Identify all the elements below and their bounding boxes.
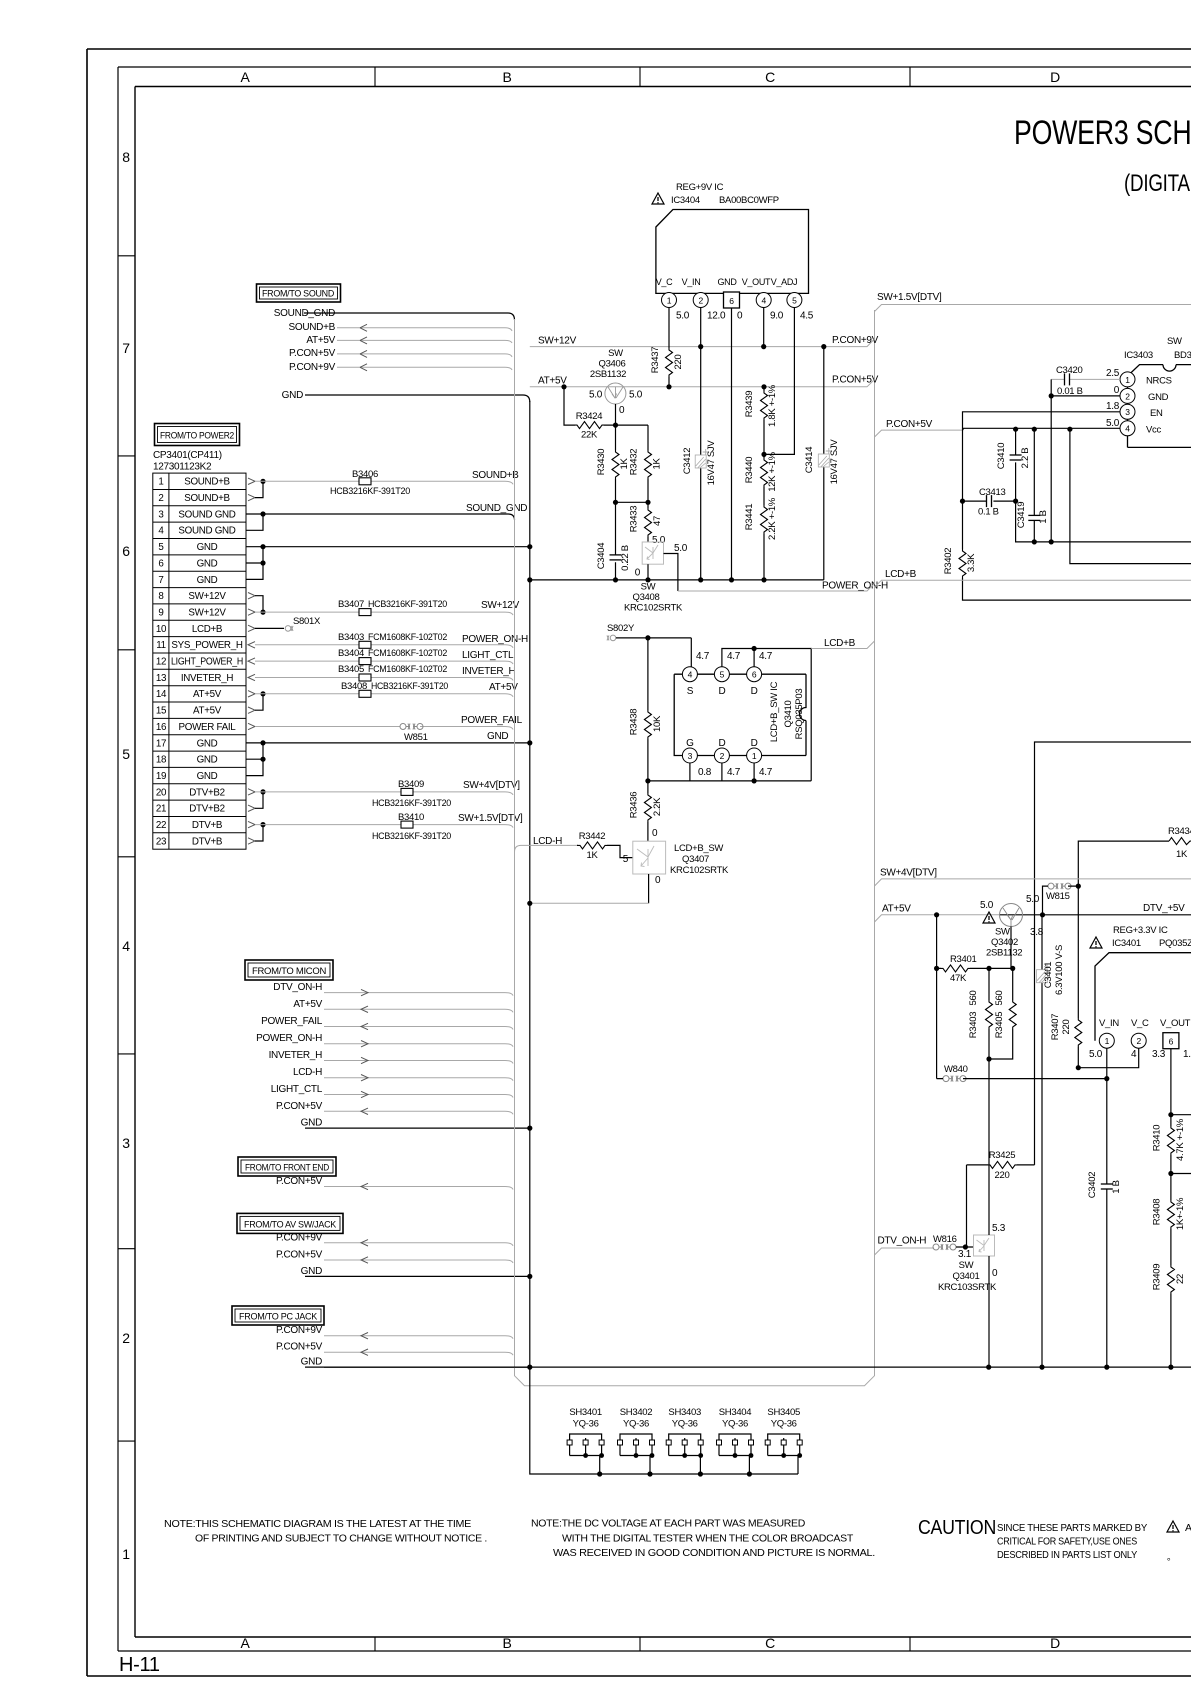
svg-text:DTV_ON-H: DTV_ON-H — [273, 982, 322, 993]
svg-text:4: 4 — [122, 938, 130, 954]
svg-text:0.1 B: 0.1 B — [978, 507, 999, 518]
transistor Q3407 KRC102SRTK LCD+B_SW — [527, 841, 729, 906]
resistor R3438 10K — [629, 638, 664, 781]
rail POWER_ON-H — [678, 581, 888, 592]
wire pin2 V_IN down + capacitor C3412 — [682, 308, 717, 583]
svg-text:LCD+B_SW: LCD+B_SW — [674, 843, 723, 854]
pin 2 Q3410 — [714, 748, 729, 763]
svg-text:20: 20 — [156, 787, 167, 798]
svg-text:C: C — [765, 1635, 775, 1651]
svg-text:D: D — [1050, 1635, 1060, 1651]
shield SH3403 — [666, 1407, 703, 1474]
svg-text:PQ035Z: PQ035Z — [1159, 938, 1191, 949]
svg-text:4.7: 4.7 — [727, 767, 741, 778]
svg-text:B3404: B3404 — [338, 648, 364, 659]
svg-text:V_OUT: V_OUT — [742, 277, 771, 287]
svg-text:GND: GND — [301, 1118, 322, 1129]
svg-text:P.CON+5V: P.CON+5V — [276, 1176, 323, 1187]
svg-text:3.3: 3.3 — [1152, 1049, 1166, 1060]
resistor R3441 2.2K — [744, 497, 778, 582]
svg-text:V_OUT: V_OUT — [1160, 1018, 1191, 1029]
svg-text:4: 4 — [1131, 1049, 1137, 1060]
svg-text:C3419: C3419 — [1016, 502, 1027, 529]
svg-text:YQ-36: YQ-36 — [623, 1419, 649, 1430]
rail AT+5V / DTV_+5V — [875, 903, 1191, 922]
svg-text:6: 6 — [122, 543, 130, 559]
svg-text:R3403: R3403 — [968, 1012, 979, 1039]
svg-text:3: 3 — [688, 751, 693, 761]
svg-text:3.1: 3.1 — [958, 1249, 972, 1260]
wire net from right top corner down (x1034.5) — [1035, 742, 1191, 1165]
svg-text:127301123K2: 127301123K2 — [153, 462, 212, 473]
svg-text:22: 22 — [1175, 1274, 1186, 1284]
svg-text:SW+1.5V[DTV]: SW+1.5V[DTV] — [877, 292, 942, 303]
svg-text:5.3: 5.3 — [992, 1223, 1006, 1234]
svg-text:YQ-36: YQ-36 — [672, 1419, 698, 1430]
svg-text:6: 6 — [1169, 1037, 1174, 1047]
connector S802Y — [607, 623, 710, 667]
IC U IC3404 BA00BC0WFP regulator — [652, 182, 809, 293]
svg-text:1 B: 1 B — [1111, 1180, 1122, 1193]
svg-text:IC3404: IC3404 — [671, 195, 700, 206]
svg-text:SH3403: SH3403 — [668, 1407, 701, 1418]
svg-text:8: 8 — [158, 591, 164, 602]
svg-text:2: 2 — [720, 751, 725, 761]
svg-text:SH3404: SH3404 — [719, 1407, 752, 1418]
svg-text:HCB3216KF-391T20: HCB3216KF-391T20 — [330, 486, 410, 497]
svg-text:LCD+B: LCD+B — [885, 569, 917, 580]
svg-text:SW+12V: SW+12V — [188, 608, 226, 619]
pin 1 Q3410 — [747, 748, 762, 763]
svg-text:WAS RECEIVED IN GOOD CONDITION: WAS RECEIVED IN GOOD CONDITION AND PICTU… — [553, 1547, 875, 1559]
net P.CON+5V (sound block) — [289, 348, 512, 359]
svg-text:D: D — [751, 686, 758, 697]
svg-text:R3439: R3439 — [744, 391, 755, 418]
svg-text:GND: GND — [197, 755, 218, 766]
note printing disclaimer — [164, 1518, 487, 1545]
svg-text:220: 220 — [995, 1170, 1010, 1181]
rail SW+12V / P.CON+9V — [530, 335, 879, 347]
svg-text:V_ADJ: V_ADJ — [771, 277, 798, 287]
svg-text:HCB3216KF-391T20: HCB3216KF-391T20 — [368, 599, 447, 610]
wire GND rows5-7 — [246, 544, 532, 579]
svg-text:GND: GND — [301, 1266, 322, 1277]
svg-text:16V47 SJV: 16V47 SJV — [706, 440, 717, 486]
svg-text:R3434: R3434 — [1168, 826, 1191, 837]
pin 2 IC3403 — [1114, 385, 1135, 403]
svg-text:B3408: B3408 — [341, 681, 367, 692]
svg-text:SOUND+B: SOUND+B — [184, 493, 230, 504]
svg-text:10K: 10K — [652, 715, 663, 732]
connector block FROM/TO POWER2 — [153, 424, 240, 473]
shield SH3401 — [567, 1407, 604, 1474]
pin 3 IC3403 — [1106, 401, 1135, 419]
svg-text:R3424: R3424 — [576, 411, 603, 422]
net LCD-H (FROM/TO MICON) — [293, 1067, 513, 1081]
resistor R3403 560 — [968, 968, 993, 1061]
svg-text:0.22 B: 0.22 B — [620, 545, 631, 571]
svg-text:OF PRINTING AND SUBJECT TO CHA: OF PRINTING AND SUBJECT TO CHANGE WITHOU… — [195, 1533, 487, 1545]
svg-text:Q3401: Q3401 — [952, 1271, 979, 1282]
svg-text:C3402: C3402 — [1087, 1172, 1098, 1199]
svg-text:1K: 1K — [586, 850, 598, 861]
svg-text:C3410: C3410 — [996, 443, 1007, 470]
transistor Q3402 2SB1132 — [980, 894, 1044, 959]
pin 1 IC3403 — [1106, 368, 1135, 387]
capacitor C3404 0.22 — [596, 502, 631, 582]
svg-text:Q3410: Q3410 — [783, 700, 794, 727]
svg-text:A: A — [240, 69, 250, 85]
svg-text:。: 。 — [1167, 1552, 1176, 1562]
wire POWER_FAIL row16 + jumper W851 — [248, 715, 523, 743]
svg-text:DTV+B2: DTV+B2 — [189, 804, 225, 815]
svg-text:D: D — [751, 738, 758, 749]
svg-text:AT+5V: AT+5V — [293, 999, 322, 1010]
svg-text:1: 1 — [1125, 375, 1130, 385]
svg-text:9: 9 — [158, 608, 163, 619]
wire Q3410 top drain bus / LCD+B rail — [722, 638, 875, 781]
svg-text:C3401: C3401 — [1043, 962, 1054, 989]
pin 5 IC3404 — [787, 293, 814, 322]
svg-text:2.2 B: 2.2 B — [1020, 448, 1031, 469]
svg-text:SOUND GND: SOUND GND — [178, 509, 235, 520]
net POWER_FAIL (FROM/TO MICON) — [261, 1016, 513, 1030]
svg-text:REG+3.3V IC: REG+3.3V IC — [1113, 925, 1168, 936]
svg-text:S802Y: S802Y — [607, 623, 635, 634]
svg-text:B3405: B3405 — [338, 664, 364, 675]
svg-text:5: 5 — [122, 746, 130, 762]
svg-text:220: 220 — [673, 355, 684, 370]
svg-text:SW: SW — [608, 348, 623, 359]
svg-text:0: 0 — [619, 405, 625, 416]
svg-text:SOUND+B: SOUND+B — [288, 322, 335, 333]
svg-text:8: 8 — [122, 149, 130, 165]
svg-text:SW+12V: SW+12V — [481, 600, 520, 611]
svg-text:KRC102SRTK: KRC102SRTK — [624, 603, 683, 614]
transistor Q3401 KRC103SRTK — [938, 1059, 1006, 1367]
svg-text:D: D — [718, 686, 725, 697]
transistor Q3406 2SB1132 — [589, 348, 643, 416]
svg-text:SW+4V[DTV]: SW+4V[DTV] — [463, 780, 520, 791]
net AT+5V (sound block) — [306, 335, 512, 346]
svg-text:GND: GND — [717, 277, 737, 287]
svg-text:LIGHT_CTL: LIGHT_CTL — [462, 650, 514, 661]
svg-text:S801X: S801X — [293, 616, 321, 627]
svg-text:6: 6 — [158, 558, 164, 569]
svg-text:16: 16 — [156, 722, 167, 733]
jumper W815 — [1040, 883, 1081, 917]
svg-text:DTV+B: DTV+B — [192, 836, 223, 847]
svg-text:R3441: R3441 — [744, 504, 755, 531]
rail LCD+B (right) — [875, 569, 1191, 587]
svg-text:POWER3 SCHE: POWER3 SCHE — [1014, 114, 1191, 152]
svg-text:1K: 1K — [652, 458, 663, 470]
svg-text:GND: GND — [197, 558, 218, 569]
svg-text:SOUND_GND: SOUND_GND — [466, 503, 527, 514]
svg-text:5.0: 5.0 — [1089, 1049, 1103, 1060]
svg-text:0: 0 — [655, 875, 661, 886]
svg-text:6: 6 — [729, 296, 734, 306]
wire Q3410 bottom bus — [645, 763, 811, 784]
wire pin2 GND down — [1049, 393, 1120, 544]
svg-text:1: 1 — [1105, 1036, 1110, 1046]
wire pin6 GND down — [729, 308, 734, 583]
svg-text:GND: GND — [1148, 392, 1169, 403]
net SOUND_GND (sound block) — [274, 308, 515, 320]
svg-text:GND: GND — [197, 542, 218, 553]
svg-text:FROM/TO FRONT END: FROM/TO FRONT END — [245, 1163, 329, 1174]
resistor R3440 12K — [744, 451, 778, 500]
capacitor C3401 6.3V100 — [1037, 915, 1066, 1367]
svg-text:LIGHT_POWER_H: LIGHT_POWER_H — [171, 657, 243, 668]
svg-text:6: 6 — [752, 670, 757, 680]
svg-text:2: 2 — [122, 1330, 130, 1346]
connector block FROM/TO PC JACK — [232, 1306, 324, 1325]
svg-text:18: 18 — [156, 755, 167, 766]
svg-text:Vcc: Vcc — [1146, 424, 1161, 435]
svg-text:C3413: C3413 — [979, 487, 1006, 498]
svg-text:W851: W851 — [404, 732, 428, 743]
svg-text:4.5: 4.5 — [800, 311, 814, 322]
svg-text:W815: W815 — [1046, 891, 1070, 902]
svg-text:3: 3 — [122, 1135, 130, 1151]
svg-text:S: S — [687, 686, 694, 697]
svg-text:V_C: V_C — [1131, 1018, 1149, 1029]
svg-text:AT+5V: AT+5V — [489, 682, 518, 693]
resistor R3433 47 — [629, 502, 666, 546]
svg-text:W816: W816 — [933, 1234, 957, 1245]
row ticks left — [118, 256, 135, 1441]
svg-text:4: 4 — [1125, 424, 1130, 434]
svg-text:5: 5 — [158, 542, 164, 553]
svg-text:B3407: B3407 — [338, 599, 364, 610]
svg-text:B3410: B3410 — [398, 812, 424, 823]
svg-text:13: 13 — [156, 673, 167, 684]
pin 4 Q3410 — [682, 667, 697, 682]
svg-text:14: 14 — [156, 689, 167, 700]
resistor R3401 47K — [937, 915, 1016, 984]
resistor R3436 2.2K — [629, 781, 664, 841]
svg-text:4: 4 — [158, 526, 164, 537]
svg-text:B: B — [502, 1635, 511, 1651]
svg-text:SW+12V: SW+12V — [538, 336, 577, 347]
svg-text:HCB3216KF-391T20: HCB3216KF-391T20 — [371, 681, 448, 692]
net P.CON+5V (FROM/TO AV SW/JACK) — [276, 1250, 513, 1264]
svg-text:SW: SW — [641, 582, 656, 593]
svg-text:4: 4 — [761, 295, 766, 305]
svg-text:YQ-36: YQ-36 — [771, 1419, 797, 1430]
svg-text:12.0: 12.0 — [707, 311, 726, 322]
svg-text:2.5: 2.5 — [1106, 368, 1120, 379]
svg-text:SW+12V: SW+12V — [188, 591, 226, 602]
svg-text:R3440: R3440 — [744, 457, 755, 484]
svg-text:GND: GND — [487, 731, 508, 742]
resistor R3430 1K — [596, 425, 630, 505]
IC U IC3403 BD3 regulator — [1124, 336, 1191, 447]
svg-text:0: 0 — [652, 828, 658, 839]
shield SH3402 — [618, 1407, 655, 1474]
svg-text:R3437: R3437 — [650, 347, 661, 374]
svg-text:1.8K +-1%: 1.8K +-1% — [767, 384, 778, 427]
svg-text:NOTE:THIS SCHEMATIC DIAGRAM IS: NOTE:THIS SCHEMATIC DIAGRAM IS THE LATES… — [164, 1518, 471, 1530]
svg-text:KRC102SRTK: KRC102SRTK — [670, 865, 729, 876]
svg-text:R3405: R3405 — [994, 1012, 1005, 1039]
svg-text:LCD+B_SW IC: LCD+B_SW IC — [769, 681, 780, 742]
jumper W840 — [934, 966, 1109, 1082]
wire SW+12V rows8-9 + bead B3407 — [248, 593, 520, 616]
svg-text:A: A — [1185, 1522, 1191, 1534]
net P.CON+9V (FROM/TO AV SW/JACK) — [276, 1232, 513, 1246]
resistor R3409 22 — [1151, 1250, 1186, 1367]
wire pin4 Vcc to P.CON+5V — [963, 427, 1120, 432]
svg-text:SH3402: SH3402 — [620, 1407, 653, 1418]
svg-text:(DIGITAL: (DIGITAL — [1124, 170, 1191, 197]
svg-text:23: 23 — [156, 836, 167, 847]
svg-text:GND: GND — [197, 771, 218, 782]
svg-text:1.8: 1.8 — [1106, 401, 1120, 412]
svg-text:21: 21 — [156, 804, 166, 815]
svg-text:POWER FAIL: POWER FAIL — [179, 722, 237, 733]
svg-text:D: D — [718, 738, 725, 749]
svg-text:9.0: 9.0 — [770, 311, 784, 322]
wire GND bus middle — [527, 577, 824, 582]
svg-text:RSQ035P03: RSQ035P03 — [794, 689, 805, 740]
svg-text:HCB3216KF-391T20: HCB3216KF-391T20 — [372, 831, 451, 842]
svg-text:4.7: 4.7 — [696, 651, 710, 662]
resistor R3408 1K — [1151, 1174, 1186, 1251]
svg-text:GND: GND — [197, 575, 218, 586]
svg-text:2: 2 — [698, 295, 703, 305]
svg-text:POWER_FAIL: POWER_FAIL — [461, 715, 523, 726]
wire SH ground bus — [530, 1367, 798, 1477]
svg-text:IC3401: IC3401 — [1112, 938, 1141, 949]
svg-text:SOUND+B: SOUND+B — [184, 477, 230, 488]
svg-text:SINCE THESE PARTS MARKED BY: SINCE THESE PARTS MARKED BY — [997, 1522, 1147, 1534]
svg-text:R3438: R3438 — [629, 709, 640, 736]
pin 6 Q3410 — [747, 667, 762, 682]
svg-text:2SB1132: 2SB1132 — [986, 948, 1022, 959]
svg-text:FCM1608KF-102T02: FCM1608KF-102T02 — [368, 664, 447, 675]
svg-text:1: 1 — [158, 477, 163, 488]
svg-text:4.7K +-1%: 4.7K +-1% — [1175, 1118, 1186, 1161]
capacitor C3410 2.2 — [996, 429, 1031, 501]
svg-text:A: A — [240, 1635, 250, 1651]
svg-text:P.CON+5V: P.CON+5V — [886, 419, 933, 430]
svg-text:2SB1132: 2SB1132 — [590, 369, 626, 380]
svg-text:GND: GND — [197, 738, 218, 749]
net P.CON+5V (FROM/TO MICON) — [276, 1101, 513, 1115]
wire GND rows17-19 — [246, 731, 532, 776]
svg-text:NRCS: NRCS — [1146, 375, 1172, 386]
wire Q3406 base node — [613, 404, 618, 428]
svg-text:10: 10 — [156, 624, 167, 635]
svg-text:P.CON+5V: P.CON+5V — [276, 1101, 323, 1112]
wire left bundle vertical (outline) — [515, 310, 875, 1386]
svg-text:BD3: BD3 — [1174, 350, 1191, 361]
resistor R3402 3.3K + wire EN — [943, 501, 1191, 600]
svg-text:KRC103SRTK: KRC103SRTK — [938, 1282, 997, 1293]
svg-text:1 B: 1 B — [1038, 510, 1049, 523]
svg-text:R3410: R3410 — [1151, 1125, 1162, 1152]
wire LIGHT_CTL row12 + bead B3404 — [248, 648, 514, 665]
pin 5 Q3410 — [714, 667, 729, 682]
connector block FROM/TO FRONT END — [238, 1157, 336, 1176]
svg-text:4: 4 — [688, 670, 693, 680]
TITLE — [1014, 114, 1191, 197]
svg-text:V_IN: V_IN — [682, 277, 701, 287]
wire LCD+B row10 to connector S801X — [248, 616, 321, 632]
svg-text:560: 560 — [968, 991, 979, 1006]
svg-text:Q3407: Q3407 — [682, 854, 709, 865]
svg-text:1: 1 — [122, 1546, 130, 1562]
svg-text:22: 22 — [156, 820, 166, 831]
svg-text:AT+5V: AT+5V — [882, 904, 911, 915]
IC U IC3401 PQ035Z regulator REG+3.3V — [1090, 925, 1191, 1041]
svg-text:5: 5 — [623, 854, 629, 865]
wire SW+1.5V[DTV] rows22-23 + bead B3410 — [248, 812, 523, 844]
svg-text:FROM/TO AV SW/JACK: FROM/TO AV SW/JACK — [244, 1220, 337, 1231]
svg-text:Q3402: Q3402 — [991, 937, 1018, 948]
svg-text:0: 0 — [635, 568, 641, 579]
wire AT+5V rows14-15 + bead B3408 — [248, 681, 518, 713]
svg-text:CRITICAL FOR SAFETY,USE ONES: CRITICAL FOR SAFETY,USE ONES — [997, 1536, 1137, 1548]
wire INVETER_H row13 + bead B3405 — [248, 664, 516, 681]
net POWER_ON-H (FROM/TO MICON) — [256, 1033, 513, 1047]
pin 2 IC3401 — [1131, 1033, 1146, 1060]
svg-text:LIGHT_CTL: LIGHT_CTL — [271, 1084, 323, 1095]
svg-text:SW: SW — [959, 1260, 974, 1271]
svg-text:AT+5V: AT+5V — [193, 706, 222, 717]
svg-text:POWER_ON-H: POWER_ON-H — [256, 1033, 322, 1044]
svg-text:SH3405: SH3405 — [767, 1407, 800, 1418]
svg-text:D: D — [1050, 69, 1060, 85]
svg-text:15: 15 — [156, 706, 167, 717]
svg-text:0.8: 0.8 — [698, 767, 712, 778]
svg-text:Q3408: Q3408 — [632, 592, 659, 603]
svg-text:AT+5V: AT+5V — [306, 335, 335, 346]
note DC voltage — [531, 1518, 875, 1560]
svg-text:R3436: R3436 — [629, 792, 640, 819]
svg-text:5.0: 5.0 — [1106, 418, 1120, 429]
svg-text:1.: 1. — [1183, 1049, 1191, 1060]
wire pin3 EN left — [963, 412, 1121, 501]
rail AT+5V / P.CON+5V — [530, 375, 879, 387]
resistor R3407 220 — [1050, 886, 1082, 1068]
svg-text:INVETER_H: INVETER_H — [269, 1050, 323, 1061]
connector block FROM/TO SOUND — [257, 284, 341, 302]
svg-text:G: G — [686, 738, 694, 749]
net GND (sound block) — [282, 390, 530, 402]
shield SH3405 — [765, 1407, 802, 1474]
svg-text:C: C — [765, 69, 775, 85]
svg-text:FROM/TO PC JACK: FROM/TO PC JACK — [239, 1312, 318, 1323]
svg-text:REG+9V IC: REG+9V IC — [676, 182, 724, 193]
svg-text:2: 2 — [1136, 1036, 1141, 1046]
svg-text:R3401: R3401 — [950, 954, 977, 965]
svg-text:LCD+B: LCD+B — [192, 624, 223, 635]
svg-text:B3403: B3403 — [338, 632, 364, 643]
svg-text:0: 0 — [1114, 385, 1120, 396]
net LIGHT_CTL (FROM/TO MICON) — [271, 1084, 513, 1098]
svg-text:INVETER_H: INVETER_H — [181, 673, 234, 684]
note CAUTION safety — [918, 1517, 1191, 1562]
svg-text:B3409: B3409 — [398, 779, 424, 790]
svg-text:YQ-36: YQ-36 — [722, 1419, 748, 1430]
svg-text:1: 1 — [752, 751, 757, 761]
resistor R3432 1K — [616, 425, 663, 505]
svg-text:1K: 1K — [1176, 849, 1188, 860]
capacitor C3413 0.1 — [960, 487, 1018, 518]
